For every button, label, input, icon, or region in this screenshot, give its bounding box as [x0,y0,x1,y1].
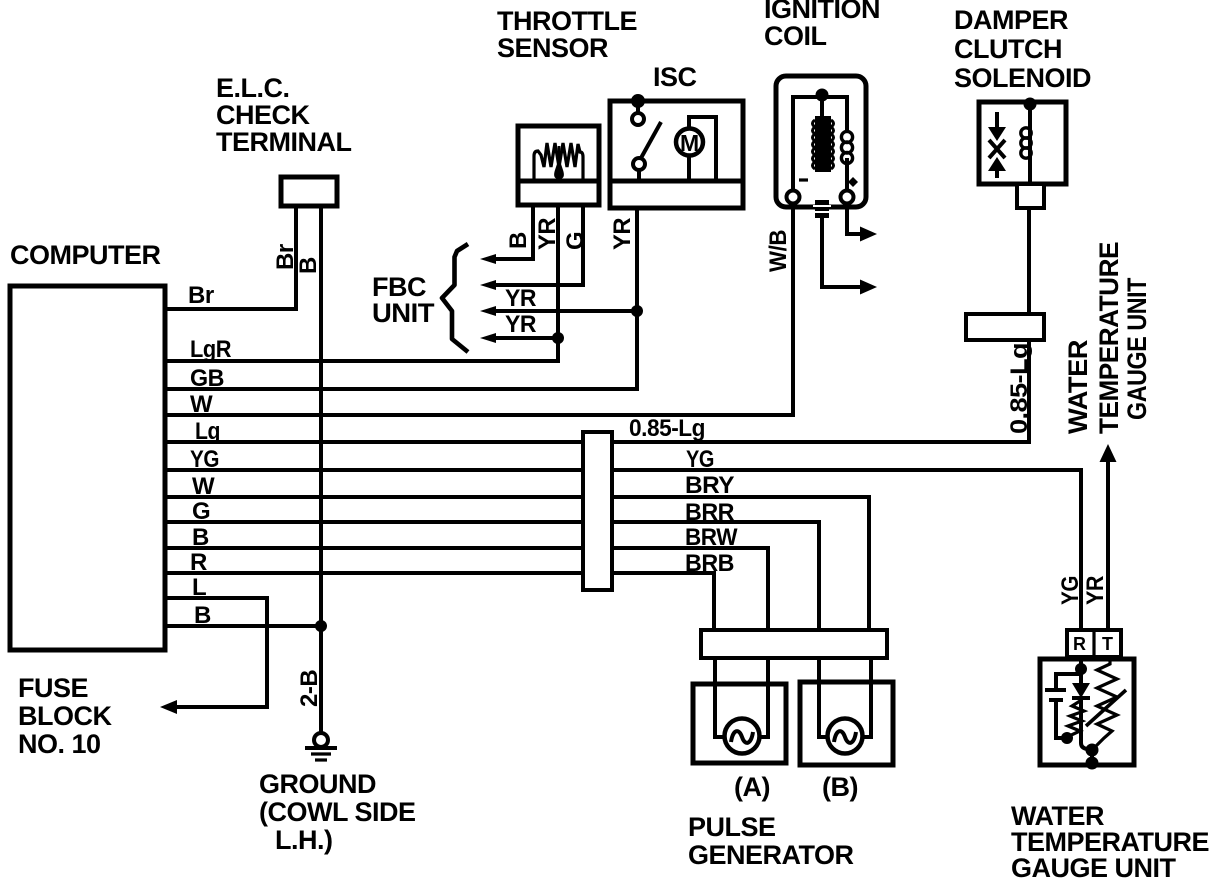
svg-text:B: B [505,232,532,249]
wire W / BRY computer to pulse generator B [167,497,869,632]
svg-text:W/B: W/B [765,230,792,272]
svg-text:CHECK: CHECK [216,100,311,130]
svg-text:(COWL SIDE: (COWL SIDE [259,797,416,827]
throttle sensor box [518,126,599,205]
svg-text:B: B [295,257,322,274]
svg-text:(B): (B) [822,772,858,802]
ignition coil primary lead connector [813,200,831,218]
damper clutch solenoid connector [1017,184,1044,208]
damper clutch solenoid valve symbol [988,112,1006,178]
ignition coil minus terminal [787,180,809,204]
FBC arrow 2 (G wire from throttle sensor) [480,203,583,290]
svg-text:BRY: BRY [685,472,734,499]
damper clutch solenoid box [979,102,1066,184]
gauge internal: thermistor arrow [1086,690,1126,726]
ignition coil primary winding [813,116,834,172]
svg-text:B: B [192,524,209,551]
svg-text:YR: YR [1082,576,1109,605]
svg-text:CLUTCH: CLUTCH [954,34,1062,64]
svg-text:E.L.C.: E.L.C. [216,73,290,103]
svg-text:M: M [680,130,699,156]
svg-text:TERMINAL: TERMINAL [216,127,351,157]
wire LgR computer to throttle sensor YR [167,203,558,361]
wire YG computer to gauge R terminal [167,470,1081,632]
svg-text:COMPUTER: COMPUTER [10,240,161,270]
pulse generator A source circle [725,719,760,754]
svg-text:Lg: Lg [195,418,220,445]
junction dot ISC YR branch [631,305,643,317]
ignition coil internal wiring [793,97,847,192]
FBC unit curly brace [442,244,468,352]
svg-text:R: R [1073,634,1086,654]
wire GB computer to ISC YR [167,206,637,389]
svg-text:G: G [192,498,210,525]
svg-text:PULSE: PULSE [688,812,776,842]
svg-text:BRB: BRB [685,550,734,577]
svg-text:L: L [192,574,206,601]
svg-text:YR: YR [534,218,561,250]
svg-text:YR: YR [609,218,636,250]
svg-text:SOLENOID: SOLENOID [954,63,1091,93]
junction dot B [315,620,327,632]
svg-text:COIL: COIL [764,21,827,51]
water temperature gauge R/T connector [1067,630,1121,657]
ignition coil primary output arrow [822,218,877,295]
wire R / BRB computer to pulse generator A [167,573,714,632]
svg-text:G: G [562,232,589,250]
gauge internal: R lead to top junction [1075,657,1087,675]
wire B computer to junction [167,624,321,628]
svg-text:R: R [190,549,207,576]
svg-text:TEMPERATURE: TEMPERATURE [1094,242,1124,434]
gauge internal: bottom junction dots [1086,744,1099,770]
wire B check terminal down to ground [319,204,323,733]
throttle sensor wiper arrow [554,146,564,179]
pulse generator A box [693,684,786,763]
wire W computer to ignition coil W/B [167,201,793,415]
ignition coil plus output arrow [847,203,877,242]
ignition coil top junction dot [816,89,829,102]
svg-text:LgR: LgR [190,336,231,363]
ISC box [610,101,743,208]
svg-text:BRR: BRR [685,499,734,526]
ISC motor M [676,117,716,181]
svg-text:L.H.): L.H.) [275,825,333,855]
svg-text:ISC: ISC [653,62,697,92]
wire G / BRR computer to pulse generator B [167,522,819,632]
FBC arrow 3 (YR from ISC) [480,306,637,316]
pulse generator B source circle [828,719,863,754]
pulse generator A wires [715,658,768,737]
throttle sensor potentiometer resistor [534,143,583,180]
damper clutch solenoid top junction dot [1024,98,1037,111]
wire B / BRW computer to pulse generator A [167,548,768,632]
damper clutch solenoid coil wire [1021,104,1031,184]
gauge internal: thermistor resistor [1094,658,1117,748]
svg-text:GENERATOR: GENERATOR [688,840,854,870]
ISC top junction dot [631,94,645,108]
svg-text:W: W [192,473,215,500]
svg-text:YR: YR [505,285,536,312]
svg-text:THROTTLE: THROTTLE [497,6,637,36]
svg-text:0.85-Lg: 0.85-Lg [629,415,705,442]
svg-text:W: W [190,391,213,418]
ignition coil box [776,76,866,207]
pulse generator connector bar [701,630,887,658]
ignition coil plus terminal [841,177,859,204]
ground symbol (cowl side) [305,733,337,760]
svg-text:UNIT: UNIT [372,298,435,328]
junction dot YR branch [552,332,564,344]
gauge internal: middle lead down [1081,698,1092,749]
gauge internal: left junction dot [1061,732,1073,744]
water temperature gauge YR arrow [1100,444,1117,630]
svg-text:T: T [1102,634,1113,654]
E.L.C. check terminal box [281,177,337,206]
svg-text:YR: YR [505,311,536,338]
svg-text:GAUGE UNIT: GAUGE UNIT [1011,853,1177,882]
svg-text:NO. 10: NO. 10 [18,729,101,759]
svg-text:WATER: WATER [1063,340,1093,434]
svg-text:2-B: 2-B [296,670,323,707]
svg-text:GAUGE UNIT: GAUGE UNIT [1122,277,1152,420]
svg-text:YG: YG [190,446,219,473]
svg-text:GB: GB [190,365,224,392]
ignition coil secondary winding [841,131,852,163]
svg-text:YG: YG [1057,576,1084,605]
pulse generator B box [800,682,893,765]
multi-wire connector bar (vertical) [583,432,612,590]
pulse generator B wires [819,658,871,737]
svg-text:0.85-Lg: 0.85-Lg [1006,343,1033,434]
svg-text:BRW: BRW [685,524,738,551]
svg-text:FUSE: FUSE [18,673,88,703]
svg-text:Br: Br [188,282,214,309]
gauge internal: small resistor [1067,701,1084,737]
svg-text:BLOCK: BLOCK [18,701,112,731]
svg-text:DAMPER: DAMPER [954,5,1068,35]
svg-text:(A): (A) [734,772,770,802]
svg-text:SENSOR: SENSOR [497,33,608,63]
water temperature gauge unit box [1040,659,1134,765]
FBC arrow 4 (YR from throttle sensor) [480,333,558,343]
svg-text:B: B [194,602,211,629]
wire L computer to fuse block arrow [160,598,267,714]
0.85-Lg inline connector bar [966,314,1044,340]
wire Lg / 0.85-Lg computer to damper clutch solenoid [167,184,1029,442]
svg-text:YG: YG [686,446,714,473]
gauge internal: diode [1072,669,1090,698]
svg-text:GROUND: GROUND [259,769,376,799]
wire Br computer to check terminal [167,204,296,309]
ISC switch [632,101,661,181]
FBC arrow 1 (B wire from throttle sensor) [480,203,533,264]
gauge internal: capacitor branch [1045,674,1081,738]
computer box [10,286,165,650]
